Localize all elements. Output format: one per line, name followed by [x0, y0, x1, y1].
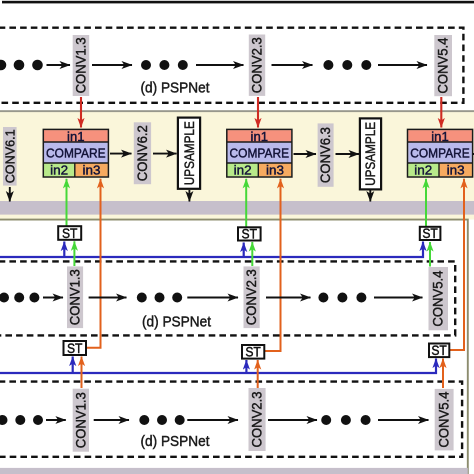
blue arrow into ST1 row2 [63, 242, 65, 258]
row3 dots left [0, 415, 43, 425]
green wire ST3row2 to in2 cmp3 [425, 179, 427, 227]
row2 arrow to conv5.4 [374, 297, 423, 299]
row2 arrow conv1.3 to dots [89, 297, 127, 299]
arrow CONV6.3 to UPSAMPLE2 [336, 153, 360, 155]
svg-text:CONV1.3: CONV1.3 [68, 269, 83, 325]
conv box CONV5.4 row2 [429, 267, 449, 330]
svg-text:(d) PSPNet: (d) PSPNet [141, 434, 210, 450]
row2 dots mid [137, 293, 182, 303]
row1 arrow to conv2.3 [196, 64, 244, 66]
arrow UPSAMPLE2 down to bar [369, 190, 371, 202]
arrow cmp2 to CONV6.3 [294, 153, 317, 155]
COMPARE block 2 [227, 129, 292, 178]
svg-text:CONV1.3: CONV1.3 [73, 392, 88, 448]
svg-text:CONV5.4: CONV5.4 [437, 391, 452, 447]
svg-text:ST: ST [431, 343, 447, 358]
svg-text:CONV2.3: CONV2.3 [244, 269, 259, 325]
COMPARE block 3 [408, 129, 473, 178]
red arrow conv2.3row1 to in1 cmp2 [257, 97, 259, 128]
conv box CONV2.3 row3 [249, 388, 266, 451]
orange wire ST2row3 to in3 cmp2 [264, 179, 281, 351]
conv box CONV6.1 [2, 127, 17, 186]
arrow CONV6.1 down to bar [9, 187, 11, 202]
row3 dots right [321, 415, 370, 425]
svg-text:ST: ST [62, 226, 78, 241]
row3 PSPNet dashed box [0, 382, 462, 457]
row3 arrow to conv1.3 [46, 419, 66, 421]
red arrow conv5.4row1 to in1 cmp3 [440, 97, 442, 128]
row2 PSPNet dashed box [0, 261, 455, 335]
blue arrow into ST2 row3 [245, 360, 247, 373]
row1 arrow to conv5.4 [378, 64, 427, 66]
svg-text:CONV5.4: CONV5.4 [436, 37, 451, 93]
conv box CONV6.3 [318, 123, 334, 186]
green wire conv1.3row2 to ST1row2 [73, 241, 75, 266]
UPSAMPLE box 1 [178, 118, 200, 189]
orange wire conv2.3row3 to ST2row3 [257, 360, 259, 388]
conv box CONV1.3 row3 [73, 389, 89, 452]
arrow CONV6.2 to UPSAMPLE1 [153, 153, 177, 155]
row3 arrow conv1.3 to dots [94, 419, 129, 421]
row1 PSPNet dashed box [0, 28, 463, 103]
row3 arrow to conv5.4 [378, 419, 429, 421]
green wire conv5.4row2 to ST3row2 [429, 242, 431, 267]
red arrow conv1.3row1 to in1 cmp1 [80, 97, 82, 128]
orange wire conv1.3row3 to ST1row3 [81, 357, 83, 389]
arrow UPSAMPLE1 down to bar [188, 190, 190, 202]
UPSAMPLE box 2 [360, 118, 381, 189]
green wire ST1row2 to in2 cmp1 [66, 179, 68, 226]
conv box CONV1.3 row2 [67, 266, 83, 328]
conv box CONV5.4 row3 [435, 389, 454, 451]
row1 arrow conv2.3 to dots [272, 64, 313, 66]
svg-text:ST: ST [245, 345, 261, 360]
blue arrow into ST1 row3 [72, 357, 74, 374]
ST box 3 row2 [420, 226, 441, 241]
svg-text:ST: ST [242, 227, 258, 242]
container box border (rows 2-3) [0, 220, 468, 474]
ST box 3 row3 [429, 343, 449, 358]
stub wire out of cmp3 [473, 153, 474, 155]
yellow band top border [0, 110, 474, 112]
row3 dots mid [139, 415, 184, 425]
blue bus row3 [0, 359, 436, 374]
ST box 1 row2 [58, 226, 81, 241]
orange wire ST3row3 to in3 cmp3 [449, 179, 464, 350]
svg-text:ST: ST [67, 341, 83, 356]
orange wire conv5.4row3 to ST3row3 [442, 359, 444, 389]
svg-text:CONV2.3: CONV2.3 [250, 37, 265, 93]
svg-text:UPSAMPLE: UPSAMPLE [363, 122, 378, 186]
top border line [2, 1, 474, 4]
row2 dots left [0, 293, 39, 303]
svg-text:CONV1.3: CONV1.3 [73, 37, 88, 93]
blue arrow into ST2 row2 [243, 243, 245, 258]
ST box 2 row2 [238, 227, 261, 242]
ST box 2 row3 [242, 345, 264, 360]
gray feature bar (bottom) [0, 468, 468, 474]
conv box CONV5.4 row1 [434, 35, 452, 96]
ST box 1 row3 [64, 341, 87, 356]
conv box CONV1.3 row1 [73, 35, 90, 96]
svg-text:CONV6.1: CONV6.1 [2, 129, 17, 183]
row2 dots right [318, 293, 366, 303]
green wire conv2.3row2 to ST2row2 [251, 242, 253, 266]
COMPARE block 1 [43, 129, 108, 178]
svg-text:(d) PSPNet: (d) PSPNet [142, 314, 211, 330]
row1 arrow conv1.3 to dots [92, 64, 132, 66]
svg-text:CONV6.3: CONV6.3 [318, 127, 333, 183]
row2 arrow to conv2.3 [187, 297, 238, 299]
svg-text:ST: ST [422, 226, 438, 241]
row2 arrow conv2.3 to dots [266, 297, 311, 299]
svg-text:UPSAMPLE: UPSAMPLE [182, 121, 197, 185]
svg-text:(d) PSPNet: (d) PSPNet [141, 80, 210, 96]
orange wire ST1row3 to in3 cmp1 [86, 179, 101, 348]
row1 dots right [323, 60, 371, 70]
row1 arrow to conv1.3 [47, 64, 71, 66]
yellow comparison band [0, 111, 474, 220]
svg-text:CONV6.2: CONV6.2 [135, 125, 150, 181]
row2 arrow to conv1.3 [43, 297, 63, 299]
svg-text:CONV5.4: CONV5.4 [431, 270, 446, 326]
arrow cmp1 to CONV6.2 [110, 153, 132, 155]
row3 arrow to conv2.3 [187, 419, 238, 421]
conv box CONV2.3 row1 [249, 35, 265, 96]
row3 arrow conv2.3 to dots [268, 419, 317, 421]
row1 dots left [0, 60, 43, 71]
conv box CONV2.3 row2 [244, 266, 260, 328]
gray feature bar (upper) [0, 201, 474, 215]
svg-text:CONV2.3: CONV2.3 [250, 392, 265, 448]
blue bus row2 [0, 242, 423, 258]
green wire ST2row2 to in2 cmp2 [245, 179, 247, 227]
row1 dots mid [141, 60, 188, 70]
conv box CONV6.2 [134, 122, 151, 184]
